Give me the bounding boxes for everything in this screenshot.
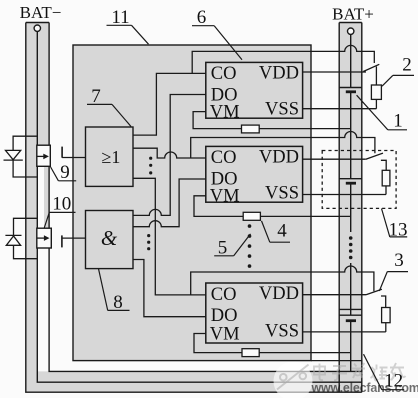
wire bleed resistor R3 bottom to VSS3 line [385,323,387,332]
callout 2 (bleed resistor) [382,55,414,87]
AND gate U8 [86,211,134,269]
MOSFET Q10 [37,228,62,248]
callout 9 (MOSFET Q9) [51,162,77,183]
wire DO1 down to AND gate input 1 (hop over CO3 riser) [133,95,206,216]
svg-text:≥1: ≥1 [102,147,121,167]
callout 13 (dotted balancing box) [382,209,408,241]
callout 4 (sense resistor) [262,221,291,243]
wire module block bottom edge extension to BAT+ track [311,360,362,362]
svg-text:VM: VM [210,324,240,344]
wire sense resistor 3 to BAT+ center node [259,352,350,354]
battery cell 3 long plate [339,314,362,316]
wire switch S1 to bleed resistor R2 [375,67,377,86]
callout 3 (cell3 branch) [379,250,408,291]
OR gate U7 [86,127,134,186]
wire CO2 to OR gate input 2 (hop over DO1 riser) [133,148,206,158]
wire VDD2 to cell2 top node and switch 2 pivot [303,158,366,160]
MOSFET Q9 [37,145,62,166]
svg-text:VSS: VSS [265,322,299,342]
bottom pack track (gray band) [26,371,362,392]
wire BAT- track center conductor wrapping to bottom [37,31,362,382]
wire BAT+ center: cell1 to dots [350,92,352,179]
callout 6 (protection IC) [192,7,242,60]
dotted balancing-module box 13 [322,151,396,209]
sense resistor under IC3 [242,349,259,357]
sense resistor under IC1 [242,125,260,133]
svg-text:VSS: VSS [265,184,299,204]
battery cell 2 long plate [339,178,362,180]
svg-text:CO: CO [211,285,237,305]
wire BAT+ track right edge [361,23,363,393]
svg-text:1: 1 [393,111,403,132]
svg-text:3: 3 [394,250,404,271]
svg-text:BAT+: BAT+ [332,5,374,24]
svg-text:10: 10 [52,194,71,215]
BAT- bus track (gray band) [26,23,49,383]
svg-text:6: 6 [197,7,207,28]
wire sense resistor 1 to BAT+ center node [259,128,351,130]
wire BAT+ track top edge [339,22,362,24]
wire VDD1 to cell1 top node and switch pivot [303,71,366,73]
wire VSS2 to cell2 bottom node and bleed resistor 2 bottom [303,194,386,196]
wire CO2 up and right to switch 2 contact (crosses BAT+ with hop) [191,132,375,159]
ellipsis dots beside AND gate inputs [147,234,150,250]
wire VM3 to sense resistor below IC3 [194,334,242,353]
wire BAT+ center: cell3 down to pack bottom [350,321,352,372]
wire BAT- track left edge wrapping to bottom [26,23,362,393]
wire VSS3 to cell3 bottom node and bleed resistor 3 bottom [303,331,386,333]
wire CO3 up and right to switch 3 contact (crosses BAT+ with hop) [191,266,374,295]
callout 12 (pack track) [364,354,405,391]
wire BAT+ center: cell2 to dots [350,183,352,232]
svg-text:&: & [101,226,118,250]
wire AND gate output to MOSFET Q10 gate [62,237,86,239]
callout 10 (MOSFET Q10) [44,194,75,229]
wire BAT- track right edge wrapping to bottom [49,23,362,372]
svg-text:CO: CO [211,64,237,84]
svg-text:DO: DO [211,306,238,326]
callout 11 (module block) [107,7,149,44]
protection IC U2 [206,146,303,206]
svg-text:VDD: VDD [259,284,299,304]
wire VSS1 to cell1 bottom node and bleed resistor bottom [303,108,377,110]
bleed resistor R2 (cell 1) [371,85,381,99]
wire DO3 up to AND gate input 3 [133,260,206,317]
wire CO3 to OR gate input 3 [133,178,206,295]
sense resistor 4 under IC2 [243,212,260,220]
svg-text:VDD: VDD [259,147,299,167]
IC module block 11 (gray background box) [73,45,311,361]
BAT+ center conductor segments [350,34,352,371]
callout 7 (OR gate) [87,86,131,127]
wire BAT+ track left edge [338,23,340,393]
protection IC U1 (block 6) [206,62,303,122]
battery cell 2 short plate [346,182,356,185]
wire VM1 to sense resistor [193,112,241,129]
wire BAT- track top edge [26,22,49,24]
watermark (elecfans) [274,362,418,398]
svg-text:4: 4 [277,221,287,242]
battery cell 1 short plate [346,90,356,93]
wire bleed resistor R2 bottom to VSS1 line [375,99,377,108]
svg-text:12: 12 [384,371,403,392]
wire BAT+ center: dots to cell3 [350,263,352,315]
wire OR gate output to MOSFET Q9 gate [62,157,85,159]
svg-text:9: 9 [60,162,70,183]
battery cell 1 long plate [339,87,362,89]
svg-text:VM: VM [210,186,240,206]
svg-text:CO: CO [211,148,237,168]
svg-text:8: 8 [113,292,123,313]
bleed resistor R3 (cell 3) [382,308,391,323]
node: cell3 top junction bar [339,308,362,310]
wire CO1 to OR gate input 1 [133,73,206,135]
BAT+ terminal circle [348,28,354,34]
battery cell 3 short plate [346,319,356,322]
wire VDD3 to cell3 top node and switch 3 pivot [303,294,366,296]
svg-text:VDD: VDD [259,63,299,83]
switch S2 blade [366,153,383,159]
wire VM2 to sense resistor 4 [194,196,243,217]
switch S1 blade [363,64,379,71]
svg-text:VSS: VSS [265,100,299,120]
svg-text:VM: VM [210,102,240,122]
svg-text:2: 2 [402,55,412,76]
BAT+ bus track (gray band) [339,23,362,393]
switch S3 blade [366,289,382,295]
wire switch S2 contact to bleed resistor [381,160,386,170]
callout 8 (AND gate) [99,269,130,313]
ellipsis dots on BAT+ stack [349,236,353,259]
protection IC U3 [206,283,303,344]
wire sense resistor 4 to BAT+ center node [260,215,350,217]
ellipsis dots below sense resistor 4 [248,224,252,268]
svg-text:BAT−: BAT− [20,3,62,22]
wire CO1 up and right to switch 1 contact (crosses BAT+ with hop) [192,45,374,73]
wire bleed resistor bottom to VSS2 line [385,186,387,195]
BAT- terminal circle [34,25,40,31]
diode D10 (parallel with MOSFET Q10) [5,218,37,258]
diode D9 (parallel with MOSFET Q9) [4,136,38,177]
wire DO2 down to AND gate input 2 (hop over CO3 riser) [133,179,206,227]
ellipsis dots beside OR gate inputs [149,157,152,175]
callout 5 (repeat dots) [214,234,250,259]
bleed resistor (cell 2) [382,170,390,186]
wire BAT+ center: terminal to cell1 [350,34,352,87]
callout 1 (cell) [357,95,407,131]
wire switch S3 contact to bleed resistor R3 [381,296,386,308]
